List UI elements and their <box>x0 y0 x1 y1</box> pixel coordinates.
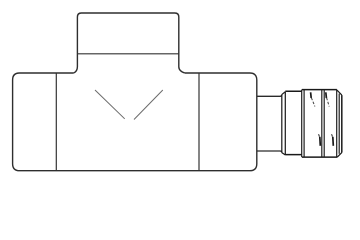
neck top edge <box>257 95 281 97</box>
valve body outline (top edge open under bonnet) <box>13 73 257 171</box>
end cap left line <box>336 90 338 158</box>
body right section line <box>198 73 200 170</box>
coupling face outer line <box>284 92 286 155</box>
sleeve top edge <box>302 89 337 91</box>
knurl highlight upper 2 tick <box>325 92 328 98</box>
end cap chamfer top <box>337 90 342 95</box>
end cap inner line <box>338 94 340 154</box>
end cap right face <box>341 95 343 153</box>
sleeve bottom edge <box>302 156 337 158</box>
knurl highlight lower 1 tick <box>319 137 322 146</box>
bonnet collar line <box>77 53 178 55</box>
coupling face inner line <box>281 95 283 153</box>
coupling face chamfer top <box>282 92 286 95</box>
neck bottom edge <box>257 151 281 153</box>
valve bonnet (top box) outline with base flares <box>74 13 185 73</box>
body left section line <box>55 73 57 170</box>
coupling face chamfer bottom <box>282 153 286 155</box>
knurl highlight lower 2 dot <box>332 134 333 136</box>
knurl highlight upper 1 tick <box>310 92 313 98</box>
groove pair 1 left line <box>301 90 303 158</box>
knurl highlight lower 2 tick <box>332 137 335 146</box>
groove pair 1 right line <box>303 90 305 158</box>
groove pair 2 left line <box>321 90 323 158</box>
collar top edge <box>285 90 302 92</box>
chevron V mark left stroke <box>95 90 125 119</box>
knurl highlight upper 2 diagonal <box>327 98 330 107</box>
end cap chamfer bottom <box>337 153 342 158</box>
knurl highlight lower 1 dot <box>319 134 320 136</box>
knurl highlight upper 1 diagonal <box>311 98 315 107</box>
collar bottom edge <box>285 154 302 156</box>
chevron V mark right stroke <box>134 90 163 120</box>
groove pair 2 right line <box>323 90 325 158</box>
